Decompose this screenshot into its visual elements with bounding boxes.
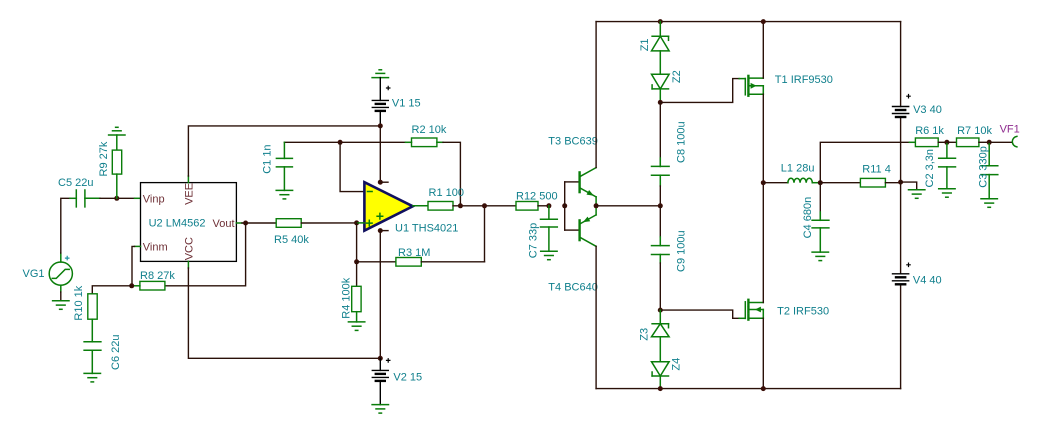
ground below C7 — [541, 251, 557, 260]
resistor R3 1M — [396, 247, 485, 266]
wire node up to lowpass row — [820, 142, 909, 182]
svg-text:C2 3,3n: C2 3,3n — [924, 149, 936, 188]
svg-text:R11 4: R11 4 — [862, 164, 891, 176]
svg-text:L1 28u: L1 28u — [781, 162, 815, 174]
pin Vout wire — [236, 222, 276, 224]
resistor R4 100k — [341, 262, 362, 322]
node T1 drain top rail junction — [761, 19, 766, 24]
node Vout junction — [243, 221, 248, 226]
wire node to T1 gate — [660, 79, 739, 103]
node emitter/C9 junction — [658, 203, 663, 208]
svg-text:Vout: Vout — [213, 218, 235, 230]
wire top rail — [596, 21, 901, 23]
wire right rail — [900, 22, 902, 389]
wire node to R10 — [92, 286, 131, 294]
svg-text:VG1: VG1 — [23, 268, 45, 280]
ground below V2 — [372, 405, 388, 414]
node R3/R4 junction — [354, 259, 359, 264]
svg-text:Z1: Z1 — [639, 38, 651, 51]
node V2 junction — [378, 356, 383, 361]
ground above R9 (inverted) — [109, 127, 125, 135]
node Vinp junction — [114, 196, 119, 201]
wire VG1 to C5 — [61, 198, 70, 253]
svg-text:C6 22u: C6 22u — [110, 335, 122, 370]
resistor R2 10k — [406, 124, 447, 147]
wire VG1 to ground — [60, 292, 62, 301]
op-amp U1 THS4021 — [364, 182, 458, 234]
node noninverting input junction — [354, 220, 359, 225]
svg-text:T2 IRF530: T2 IRF530 — [777, 305, 829, 317]
node rail ground junction — [898, 180, 903, 185]
wire node to U1 + input — [357, 222, 365, 224]
ground above V1 (inverted) — [372, 70, 388, 78]
svg-text:R12 500: R12 500 — [516, 190, 558, 202]
capacitor C3 330p — [977, 142, 998, 199]
zener Z1 — [639, 22, 669, 75]
svg-text:Z3: Z3 — [639, 328, 651, 341]
svg-text:R5 40k: R5 40k — [274, 234, 309, 246]
capacitor C4 680n — [802, 183, 829, 252]
wire base tee to T3/T4 bases — [565, 182, 579, 230]
voltage source VG1 — [23, 253, 73, 292]
ground below C1 — [276, 190, 292, 199]
ground below C6 — [84, 373, 100, 382]
node Z3/C9/T2-gate junction — [658, 308, 663, 313]
svg-text:R8 27k: R8 27k — [140, 270, 175, 282]
transistor T3 BC639 — [548, 135, 598, 205]
svg-text:Vinm: Vinm — [143, 242, 168, 254]
node bottom rail zener junction — [658, 386, 663, 391]
ground below C4 — [812, 252, 828, 261]
svg-text:T4 BC640: T4 BC640 — [548, 281, 598, 293]
node R8/Vinm/R10 junction — [129, 283, 134, 288]
svg-text:VCC: VCC — [183, 237, 195, 260]
svg-text:C4 680n: C4 680n — [802, 197, 814, 239]
MOSFET T2 IRF530 — [739, 183, 829, 389]
resistor R6 1k — [915, 125, 947, 146]
svg-text:R10 1k: R10 1k — [73, 285, 85, 320]
battery V3 40 — [893, 94, 942, 117]
wire U1 V- pin down to V2 node — [379, 231, 381, 359]
pin Vinm wire — [132, 246, 141, 285]
svg-text:R4 100k: R4 100k — [341, 277, 353, 318]
MOSFET T1 IRF9530 — [739, 22, 833, 183]
capacitor C7 33p — [528, 206, 558, 258]
wire node to R3 — [357, 261, 396, 263]
ground below VG1 — [53, 301, 69, 310]
capacitor C2 3,3n — [924, 142, 955, 188]
ground below R4 — [348, 322, 364, 331]
node L1/C4/R11 junction — [818, 180, 823, 185]
svg-text:T1 IRF9530: T1 IRF9530 — [775, 74, 833, 86]
svg-text:C1 1n: C1 1n — [262, 144, 274, 173]
resistor R1 100 — [428, 187, 516, 210]
ground below C3 — [981, 199, 997, 208]
wire V1 node down to U1 V+ pin — [379, 126, 381, 182]
wire node down to R3/R4 node — [356, 223, 358, 262]
resistor R12 500 — [516, 190, 558, 210]
wire bottom rail — [596, 388, 901, 390]
wire T4 collector to bottom rail — [595, 246, 597, 388]
svg-text:V1 15: V1 15 — [392, 97, 421, 109]
node C2 junction — [944, 140, 949, 145]
resistor R11 4 — [820, 164, 900, 187]
ground below C2 — [939, 189, 955, 198]
capacitor C5 22u — [58, 177, 100, 207]
svg-text:R1 100: R1 100 — [429, 187, 464, 199]
svg-text:T3 BC639: T3 BC639 — [548, 135, 598, 147]
node C7 junction — [546, 203, 551, 208]
svg-text:C9 100u: C9 100u — [676, 230, 688, 272]
node top rail zener junction — [658, 19, 663, 24]
wire Vout feedback down-left to R8 — [165, 223, 246, 286]
wire R2 down to output row — [443, 142, 460, 206]
node R3 branch junction — [482, 203, 487, 208]
node T2 source bottom rail junction — [761, 386, 766, 391]
svg-text:Vinp: Vinp — [143, 193, 165, 205]
wire U1 output to R1 — [413, 205, 428, 207]
wire stub to rail ground — [901, 182, 917, 190]
svg-text:V2 15: V2 15 — [393, 371, 422, 383]
ground at supply midpoint — [909, 190, 925, 199]
wire R3 up to output row — [484, 206, 486, 262]
output terminal VF1 — [989, 124, 1020, 147]
battery V1 15 — [372, 78, 420, 126]
transistor T4 BC640 — [548, 206, 598, 294]
svg-text:R7 10k: R7 10k — [957, 125, 992, 137]
capacitor C6 22u — [84, 335, 122, 374]
pin VEE wire up and rail to V1 node — [188, 126, 380, 183]
node Z2/C8/T1-gate junction — [658, 100, 663, 105]
svg-text:R9 27k: R9 27k — [98, 141, 110, 176]
capacitor C1 1n — [262, 142, 293, 190]
wire to U1 inverting input — [340, 142, 364, 191]
svg-text:U2 LM4562: U2 LM4562 — [149, 218, 206, 230]
resistor R7 10k — [947, 125, 993, 146]
U1 bottom power pin — [378, 228, 383, 233]
zener Z3 — [639, 310, 670, 362]
zener Z2 — [652, 70, 683, 102]
zener Z4 — [652, 358, 683, 389]
node C3/VF1 junction — [987, 140, 992, 145]
pin VCC wire down to V2 node — [188, 261, 380, 358]
svg-text:V3 40: V3 40 — [913, 104, 942, 116]
wire C5 to Vinp node — [100, 197, 135, 199]
node base junction — [562, 203, 567, 208]
svg-text:C5 22u: C5 22u — [58, 177, 93, 189]
svg-text:C7 33p: C7 33p — [528, 223, 540, 258]
svg-text:VEE: VEE — [183, 183, 195, 205]
svg-text:Z4: Z4 — [671, 358, 683, 371]
svg-text:C3 330p: C3 330p — [977, 146, 989, 188]
battery V2 15 — [372, 358, 422, 405]
capacitor C8 100u — [652, 102, 688, 205]
node inverting branch junction — [338, 140, 343, 145]
battery V4 40 — [893, 263, 942, 287]
svg-text:Z2: Z2 — [671, 70, 683, 83]
resistor R10 1k — [73, 285, 97, 342]
wire node to T2 gate — [660, 310, 739, 318]
wire R2/C1 row — [284, 141, 405, 143]
resistor R5 40k — [274, 219, 357, 247]
svg-text:R2 10k: R2 10k — [412, 124, 447, 136]
svg-text:R3 1M: R3 1M — [398, 247, 430, 259]
capacitor C9 100u — [652, 206, 688, 310]
node output column L1 junction — [761, 180, 766, 185]
wire emitter row to C8/C9 node — [596, 205, 660, 207]
svg-text:R6 1k: R6 1k — [915, 125, 944, 137]
wire node to Vinp pin — [135, 197, 141, 199]
wire T3 collector to top rail — [595, 22, 597, 168]
svg-text:U1 THS4021: U1 THS4021 — [395, 223, 458, 235]
svg-text:V4 40: V4 40 — [913, 274, 942, 286]
node R2 branch junction — [458, 203, 463, 208]
resistor R8 27k — [132, 270, 176, 290]
node emitter junction — [594, 203, 599, 208]
resistor R9 27k — [98, 135, 122, 198]
svg-text:C8 100u: C8 100u — [676, 121, 688, 163]
svg-text:VF1: VF1 — [1000, 124, 1020, 136]
U1 top power pin — [378, 180, 383, 185]
node V1 junction — [378, 123, 383, 128]
inductor L1 28u — [763, 162, 820, 182]
op-amp U2 LM4562 box — [141, 183, 237, 262]
